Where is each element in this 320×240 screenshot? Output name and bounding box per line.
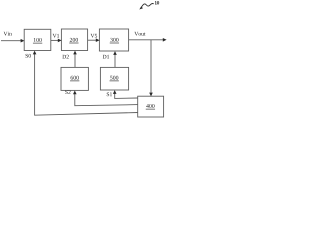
label D1 (103, 55, 109, 59)
label Vout (134, 32, 145, 36)
arrowhead Vout right (163, 38, 167, 42)
block 100 (24, 29, 51, 50)
wire Vin input (1, 40, 22, 42)
label D2 (62, 55, 68, 59)
figure ref 10 squiggle leader (141, 3, 154, 8)
block 400 (138, 96, 164, 117)
wire S0 (35, 53, 138, 115)
wire Vout feedback branch (150, 40, 152, 94)
label S2 (65, 90, 70, 94)
block 200 (61, 29, 87, 51)
arrowhead feedback into 400 top (149, 93, 153, 97)
label S0 (26, 54, 31, 58)
ref numeral 400 (146, 104, 154, 108)
block 600 (61, 67, 88, 90)
wire V1 (51, 39, 59, 41)
wire D1 (114, 54, 116, 68)
label V1 (53, 34, 59, 38)
ref numeral 500 (110, 76, 118, 80)
arrowhead D1 into 300 bottom (113, 51, 117, 55)
ref numeral 600 (71, 76, 79, 80)
wire S1 (115, 93, 138, 99)
ref numeral 300 (110, 38, 118, 42)
label S1 (107, 92, 112, 96)
arrowhead S1 into 500 bottom (113, 90, 117, 94)
arrowhead of squiggle (139, 6, 143, 9)
wire D2 (74, 53, 76, 67)
arrowhead V5 into 300 (96, 38, 100, 42)
wire Vout (129, 39, 164, 41)
arrowhead Vin into 100 (21, 39, 25, 43)
block 300 (99, 29, 128, 51)
label V5 (91, 34, 98, 38)
ref numeral 200 (70, 38, 78, 42)
arrowhead V1 into 200 (58, 39, 62, 43)
label Vin (4, 32, 12, 36)
wire S2 (75, 93, 138, 106)
block 500 (100, 67, 128, 90)
arrowhead D2 into 200 bottom (73, 51, 77, 55)
ref numeral 100 (34, 38, 42, 42)
wire V5 (88, 39, 97, 41)
arrowhead S2 into 600 bottom (73, 91, 77, 95)
arrowhead S0 into 100 bottom (33, 51, 37, 55)
figure ref 10 text (155, 1, 159, 4)
